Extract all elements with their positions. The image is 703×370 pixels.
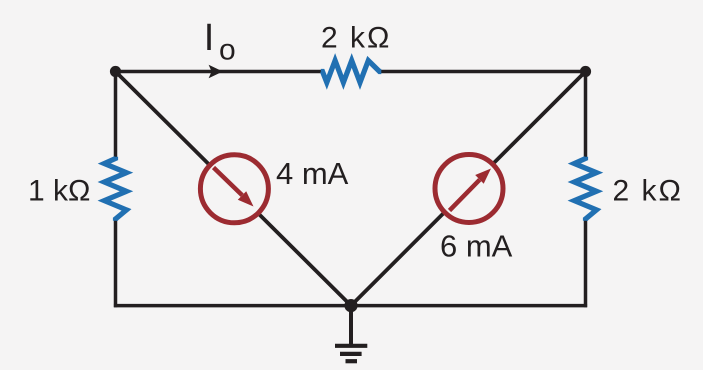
wire left branch upper [114,70,118,159]
current arrow Io on top wire [209,65,223,78]
resistor R1 1kOhm (left) [104,157,126,221]
resistor R2 2kOhm (top) [321,61,382,83]
node B (top-right junction dot) [580,66,591,77]
wire bottom rail [114,304,587,308]
svg-text:o: o [219,34,236,67]
svg-text:2 kΩ: 2 kΩ [321,22,391,55]
wire left branch lower [114,218,118,307]
current source I2 arrow [450,169,492,211]
wire right branch lower [584,218,588,307]
current source I2 6mA (circle) [435,155,503,223]
svg-text:4 mA: 4 mA [276,156,349,191]
wire 2k resistor to top-right node [380,70,586,74]
node G (bottom center junction dot) [344,299,357,312]
node A (top-left junction dot) [110,66,121,77]
wire right branch upper [584,70,588,159]
wire diagonal left (node A to ground node) [116,72,352,306]
current source I1 4mA (circle) [200,155,268,223]
svg-text:1 kΩ: 1 kΩ [28,175,90,208]
resistor R3 2kOhm (right) [574,157,596,221]
svg-text:I: I [204,17,215,59]
ground [335,306,367,362]
wire top-left node to 2k resistor [116,70,323,74]
svg-text:6 mA: 6 mA [440,229,513,264]
svg-text:2 kΩ: 2 kΩ [613,175,683,208]
wire diagonal right (node B to ground node) [351,72,586,306]
current source I1 arrow [214,168,254,207]
